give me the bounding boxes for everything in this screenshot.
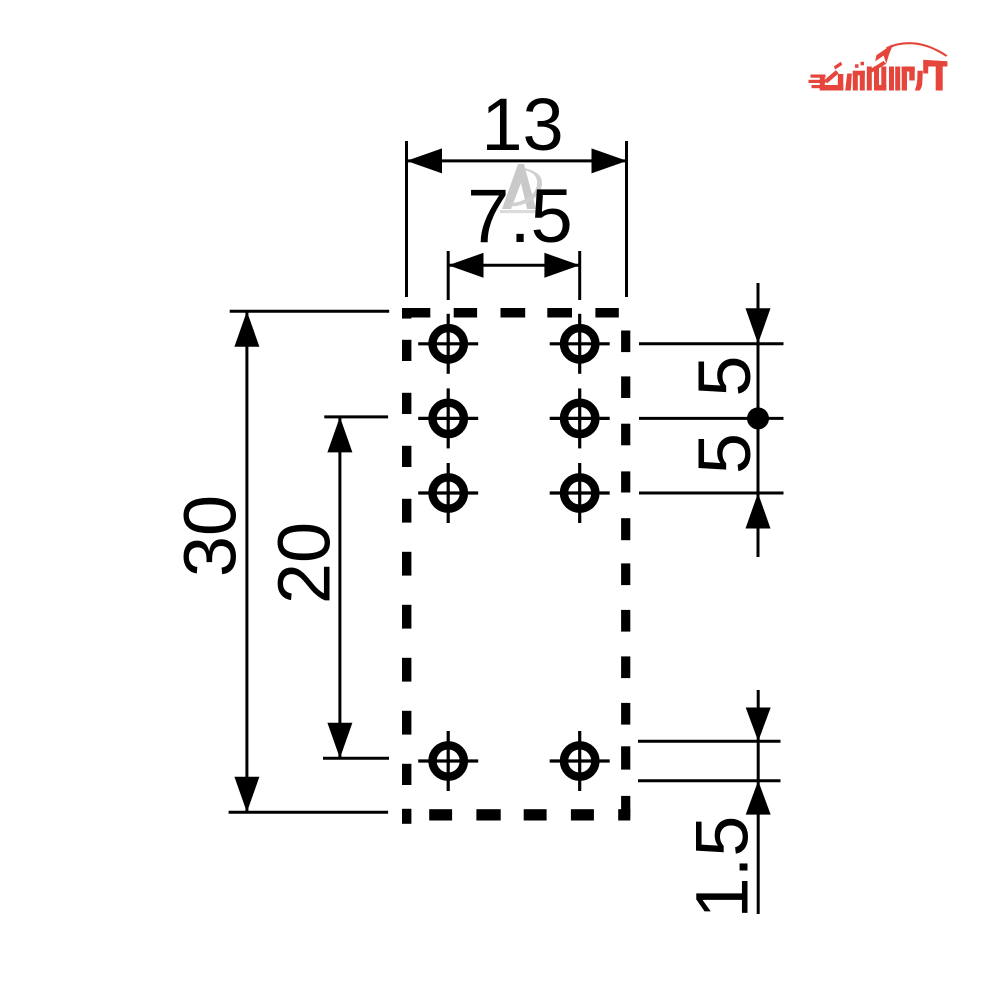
dashed outline rectangle: bottom edge: [429, 809, 594, 820]
dimension 1.5: dimension line: [757, 690, 760, 914]
dashed outline rectangle: left edge: [402, 308, 411, 824]
dimension 1.5: upper arrowhead (pointing down): [746, 708, 771, 742]
dimension 5/5: bottom arrowhead (pointing up): [746, 493, 771, 529]
svg-text:5: 5: [683, 433, 766, 474]
svg-text:7.5: 7.5: [467, 174, 573, 259]
pin hole P6 (row 3, right) with crosshair: [550, 463, 610, 523]
pin hole P4 (row 2, right) with crosshair: [550, 388, 610, 448]
pin hole P5 (row 3, left) with crosshair: [418, 463, 478, 523]
dimension 30: top arrowhead: [234, 311, 259, 347]
dimension 5/5: dimension line: [757, 283, 760, 557]
dimension 7.5: right extension line: [578, 251, 581, 300]
dimension 20: dimension line: [338, 417, 341, 758]
dimension 1.5: lower extension line: [638, 779, 781, 782]
svg-text:20: 20: [263, 522, 346, 604]
dimension 5/5: top arrowhead (pointing down): [746, 308, 771, 344]
pin hole P8 (bottom row, right) with crosshair: [550, 731, 610, 791]
dimension 20: top extension line: [324, 415, 388, 418]
dimension 1.5: upper extension line: [638, 740, 781, 743]
holes: 2 columns x 3 rows + bottom row: [418, 314, 610, 791]
dimension 20: bottom arrowhead: [327, 723, 352, 759]
pin hole P1 (row 1, left) with crosshair: [418, 314, 478, 374]
dimension 30: dimension line: [245, 311, 248, 812]
dashed outline rectangle: top edge: [403, 308, 619, 318]
dimension 1.5: lower arrowhead (pointing up): [746, 781, 771, 815]
dimension 1.5: value label "1.5" (rotated): [681, 816, 764, 919]
dimension 13: left arrowhead: [407, 148, 443, 173]
dimension 7.5: left extension line: [447, 251, 450, 300]
dimension 7.5: right arrowhead: [544, 253, 579, 278]
dimension 30: top extension line: [230, 310, 390, 313]
pin hole P2 (row 1, right) with crosshair: [550, 314, 610, 374]
dimension 5/5: middle junction dot: [747, 407, 769, 429]
svg-text:1.5: 1.5: [681, 816, 764, 919]
dimension 30: value label "30" (rotated): [169, 495, 252, 577]
dimension 13: left extension line: [405, 141, 408, 297]
red logo top-right: [809, 42, 948, 90]
dimension 5/5: extension line from hole row 3: [639, 492, 784, 495]
dimension 5/5: extension line from hole row 2: [639, 417, 784, 420]
svg-text:30: 30: [169, 495, 252, 577]
dimension 30: bottom extension line: [229, 811, 389, 814]
dimension 5 (lower): value label "5" (rotated): [683, 433, 766, 474]
dimension 13: right extension line: [625, 141, 628, 297]
dimension 5 (upper): value label "5" (rotated): [683, 355, 766, 396]
dimension 13: right arrowhead: [592, 148, 628, 173]
svg-text:5: 5: [683, 355, 766, 396]
dimension 13: dimension line: [407, 159, 628, 162]
dimension 20: top arrowhead: [327, 417, 352, 453]
watermark A: [500, 164, 542, 213]
dimension 30: bottom arrowhead: [234, 777, 259, 813]
dimension 20: value label "20" (rotated): [263, 522, 346, 604]
dimension 7.5: left arrowhead: [448, 253, 483, 278]
dimension 5/5: extension line from hole row 1: [639, 342, 784, 345]
pin hole P3 (row 2, left) with crosshair: [418, 388, 478, 448]
pin hole P7 (bottom row, left) with crosshair: [418, 731, 478, 791]
svg-text:13: 13: [481, 83, 563, 166]
dimension 20: bottom extension line: [323, 757, 389, 760]
dimension 7.5: dimension line: [448, 264, 580, 267]
dashed outline rectangle: right edge: [618, 331, 630, 821]
